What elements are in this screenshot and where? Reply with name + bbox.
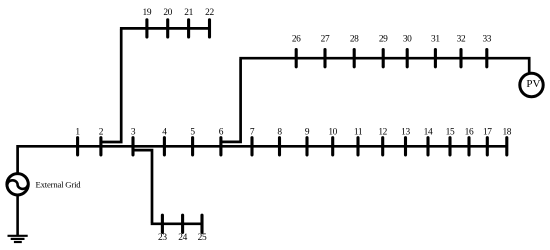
svg-text:30: 30 (403, 35, 412, 45)
bus 1 (75, 128, 80, 155)
bus 6 (219, 128, 224, 155)
svg-text:18: 18 (502, 128, 511, 138)
svg-text:10: 10 (328, 128, 337, 138)
wire branch line bus 23 - bus 25 (151, 222, 202, 225)
svg-text:14: 14 (424, 128, 433, 138)
bus 32 (457, 35, 466, 67)
svg-text:7: 7 (250, 128, 255, 138)
bus 8 (277, 128, 282, 155)
svg-text:15: 15 (446, 128, 455, 138)
wire bus 6 to bus 26 branch riser (221, 59, 241, 142)
bus 28 (350, 35, 359, 67)
bus 30 (403, 35, 412, 67)
bus 31 (431, 35, 440, 67)
svg-text:9: 9 (305, 128, 310, 138)
wire branch line bus 19 - bus 22 (120, 27, 210, 30)
bus 27 (321, 35, 330, 67)
svg-text:23: 23 (158, 233, 167, 243)
svg-text:16: 16 (465, 128, 474, 138)
svg-text:External Grid: External Grid (36, 180, 82, 190)
svg-text:6: 6 (219, 128, 224, 138)
svg-text:PV: PV (526, 78, 540, 90)
bus 19 (143, 8, 152, 37)
bus 26 (292, 35, 301, 67)
wire bus 3 to bus 23 branch drop (133, 150, 152, 223)
svg-text:32: 32 (457, 35, 466, 45)
svg-text:33: 33 (482, 35, 491, 45)
svg-text:22: 22 (205, 8, 214, 18)
bus 22 (205, 8, 214, 37)
svg-text:21: 21 (184, 8, 193, 18)
svg-text:8: 8 (277, 128, 282, 138)
wire bus 2 to bus 19 branch riser (101, 29, 121, 142)
bus 17 (483, 128, 492, 155)
svg-text:1: 1 (75, 128, 80, 138)
bus 33 (482, 35, 491, 67)
svg-text:2: 2 (99, 128, 104, 138)
bus 25 (198, 215, 207, 243)
bus 20 (163, 8, 172, 37)
bus 13 (401, 128, 410, 155)
external grid symbol (circle with sine) (7, 174, 28, 195)
bus 10 (328, 128, 337, 155)
svg-text:28: 28 (350, 35, 359, 45)
svg-text:29: 29 (379, 35, 388, 45)
bus 14 (424, 128, 433, 155)
svg-text:20: 20 (163, 8, 172, 18)
wire external grid to ground (16, 195, 19, 235)
PV generator at bus 33 (520, 73, 543, 96)
bus 12 (378, 128, 387, 155)
svg-text:26: 26 (292, 35, 301, 45)
bus 4 (162, 128, 167, 155)
bus 29 (379, 35, 388, 67)
svg-text:5: 5 (190, 128, 195, 138)
bus 23 (158, 215, 167, 243)
svg-text:13: 13 (401, 128, 410, 138)
bus 16 (465, 128, 474, 155)
bus 18 (502, 128, 511, 155)
bus 11 (354, 128, 363, 155)
svg-text:17: 17 (483, 128, 492, 138)
bus 5 (190, 128, 195, 155)
svg-text:4: 4 (162, 128, 167, 138)
wire branch line bus 26 - bus 33 with drop to PV (239, 58, 529, 73)
ground (8, 236, 28, 242)
svg-text:12: 12 (378, 128, 387, 138)
bus 21 (184, 8, 193, 37)
svg-text:19: 19 (143, 8, 152, 18)
svg-text:27: 27 (321, 35, 330, 45)
svg-text:24: 24 (178, 233, 187, 243)
bus 15 (446, 128, 455, 155)
bus 3 (131, 128, 136, 155)
bus 24 (178, 215, 187, 243)
bus 2 (99, 128, 104, 155)
bus 7 (250, 128, 255, 155)
bus 9 (305, 128, 310, 155)
svg-text:11: 11 (354, 128, 363, 138)
svg-text:3: 3 (131, 128, 136, 138)
wire main feeder (bus 1 - bus 18) with drop to external grid (18, 146, 507, 173)
svg-text:25: 25 (198, 233, 207, 243)
svg-text:31: 31 (431, 35, 440, 45)
